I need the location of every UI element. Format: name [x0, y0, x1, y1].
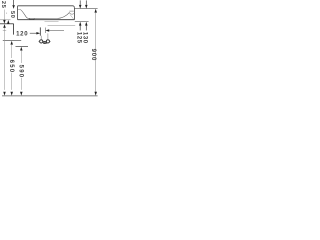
extension line right lower [75, 21, 89, 23]
svg-text:650: 650 [8, 60, 14, 74]
125 dimension line [79, 0, 81, 4]
120 arrow tail [30, 32, 37, 34]
reference line A (650) [0, 23, 14, 25]
wall line for 120 [13, 24, 15, 35]
drain recess [29, 18, 35, 21]
svg-text:125: 125 [76, 32, 82, 44]
extension line right top [75, 8, 98, 10]
130 dimension line [85, 0, 87, 4]
stub above right hole [47, 33, 49, 40]
left arrow with tail [45, 29, 49, 32]
svg-text:900: 900 [90, 49, 96, 61]
drain slope right [70, 15, 74, 20]
side ticks [38, 40, 39, 42]
extension line lower-left segment [45, 21, 59, 23]
120 arrow right [36, 32, 40, 35]
bowl interior curve [20, 10, 69, 19]
900 dimension line [94, 9, 97, 13]
basin right edge [73, 8, 75, 20]
second axis line [44, 28, 46, 34]
inner ledge right [69, 10, 74, 12]
reference line B (650) [3, 40, 21, 42]
basin outline: left edge [17, 6, 19, 20]
590 dimension line x=21.3 [20, 47, 23, 51]
dimension line column x=13.6 upper stub [13, 0, 15, 5]
650 dimension line x=11.7 [10, 41, 13, 45]
overflow curl [69, 12, 74, 14]
background [0, 0, 100, 100]
25 dim upper shaft [3, 10, 5, 20]
basin top rim [18, 6, 75, 8]
25 dim partner up-arrow [7, 20, 10, 24]
basin bottom [18, 19, 75, 21]
hole circle left [40, 40, 43, 43]
floor line [2, 95, 98, 97]
hole circle right [46, 40, 49, 43]
25 dim down-arrow onto line A [3, 20, 6, 24]
reference line C2 (590) [16, 46, 29, 48]
faucet axis line [39, 27, 41, 35]
floor dimension line x=4.5 [3, 24, 6, 28]
inner rim line left [18, 9, 20, 11]
svg-text:590: 590 [17, 65, 23, 79]
svg-text:25: 25 [0, 1, 6, 9]
extension line basin bottom left [0, 19, 11, 21]
faint line y=25.4 [48, 24, 76, 26]
svg-text:120: 120 [16, 32, 28, 38]
stub above left hole [40, 36, 42, 40]
leader dot [6, 13, 7, 14]
arrow down tip at rim [12, 5, 15, 9]
middle small circles [43, 41, 45, 43]
svg-text:50: 50 [9, 11, 15, 19]
svg-text:130: 130 [81, 32, 87, 44]
